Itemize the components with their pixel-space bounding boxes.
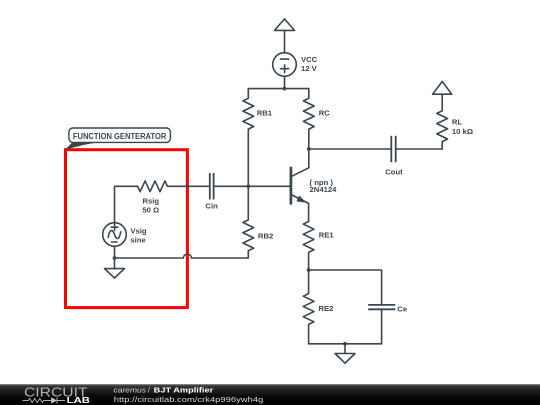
svg-text:RB1: RB1 [257, 109, 273, 118]
svg-text:LAB: LAB [67, 395, 90, 405]
svg-text:VCC: VCC [301, 55, 318, 64]
svg-text:10 kΩ: 10 kΩ [452, 127, 473, 136]
svg-text:RE2: RE2 [319, 304, 334, 313]
svg-text:http://circuitlab.com/crk4p996: http://circuitlab.com/crk4p996ywh4g [114, 395, 263, 404]
svg-text:RB2: RB2 [258, 231, 273, 240]
svg-text:RE1: RE1 [319, 231, 335, 240]
svg-text:2N4124: 2N4124 [310, 185, 338, 194]
svg-text:Rsig: Rsig [142, 196, 159, 205]
svg-text:RC: RC [319, 109, 331, 118]
svg-text:Cout: Cout [385, 167, 403, 176]
svg-text:BJT Amplifier: BJT Amplifier [154, 385, 214, 394]
svg-text:Cin: Cin [205, 202, 218, 211]
svg-text:12 V: 12 V [301, 64, 318, 73]
svg-text:FUNCTION GENTERATOR: FUNCTION GENTERATOR [73, 131, 167, 141]
svg-text:Vsig: Vsig [130, 226, 147, 235]
svg-text:50 Ω: 50 Ω [142, 205, 159, 214]
svg-text:caremus: caremus [114, 385, 147, 394]
svg-text:RL: RL [452, 117, 463, 126]
svg-text:sine: sine [130, 236, 146, 245]
svg-text:Ce: Ce [397, 305, 408, 314]
